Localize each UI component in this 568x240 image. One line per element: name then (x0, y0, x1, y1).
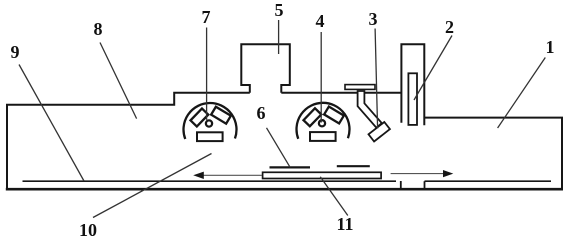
label 11 (336, 215, 353, 233)
label 7 (202, 8, 211, 26)
conveyor table right segment (425, 180, 552, 182)
leader 11 (320, 177, 348, 216)
wheel 4 (right grinding head) (297, 103, 350, 141)
leader 6 (267, 128, 291, 168)
nozzle of element 3 (369, 122, 390, 142)
mount bar of element 3 (345, 85, 375, 90)
wheel 7 (left grinding head) (184, 103, 237, 141)
housing right wall (561, 118, 563, 189)
label 6 (257, 104, 266, 122)
label 3 (369, 10, 378, 28)
conveyor table left segment (23, 180, 397, 182)
left arrow shaft (203, 174, 262, 176)
label 2 (445, 18, 454, 36)
slot post right (424, 181, 426, 188)
label 9 (11, 43, 20, 61)
tray 11 (263, 172, 382, 178)
pad segment 6b (337, 165, 370, 167)
leader 4 (320, 32, 322, 123)
right arrow shaft (391, 173, 444, 175)
leader 10 (93, 154, 212, 218)
leader 1 (498, 58, 546, 129)
housing right top edge (424, 117, 563, 119)
right arrow head (443, 170, 453, 177)
label 5 (275, 1, 284, 19)
leader 9 (19, 65, 84, 182)
leader 7 (206, 28, 208, 120)
label 8 (94, 20, 103, 38)
leader 5 (278, 20, 280, 54)
hopper 5 with feet (241, 44, 289, 93)
element 2 inner slide (408, 73, 417, 125)
label 4 (316, 12, 325, 30)
label 10 (79, 221, 97, 239)
top plate right segment (281, 92, 401, 94)
label 1 (546, 38, 555, 56)
element 2 outer column (401, 44, 424, 125)
arm of element 3 (358, 91, 382, 128)
pad segment 6a (270, 166, 311, 168)
housing bottom edge (6, 188, 563, 191)
slot post left (400, 181, 402, 189)
housing outline: left top edge, step, left wall (7, 93, 250, 189)
leader 3 (375, 29, 378, 129)
left arrow head (193, 172, 204, 179)
leader 2 (414, 36, 452, 101)
leader 8 (100, 43, 137, 119)
